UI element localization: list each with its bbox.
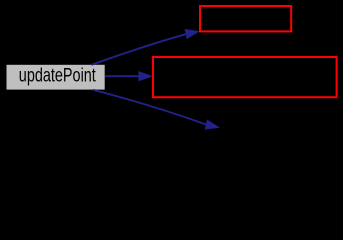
arrowhead edge 2 [138, 71, 153, 81]
node updatePoint (current function, grey fill) [7, 64, 105, 90]
edge: updatePoint -> node 4 (invisible box, bottom) [93, 90, 206, 125]
svg-text:updatePoint: updatePoint [19, 64, 96, 86]
arrowhead edge 3 [205, 119, 220, 129]
arrowhead edge 1 [185, 29, 200, 39]
node 3: truncated callee (red border, black text invisible) [153, 57, 337, 97]
edge: updatePoint -> node 2 (top red box) [92, 34, 186, 65]
edge: updatePoint -> node 3 (middle red box) [105, 75, 139, 77]
node 2: truncated callee (red border, black text invisible) [200, 6, 291, 31]
